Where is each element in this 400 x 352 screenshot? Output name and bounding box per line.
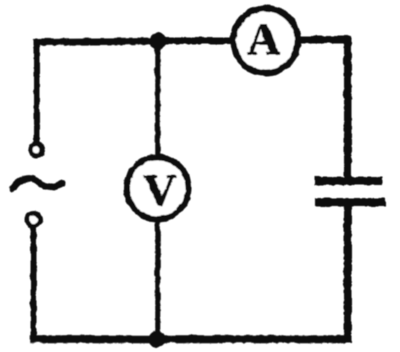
svg-text:V: V <box>142 164 175 215</box>
wire right vertical lower <box>343 203 351 339</box>
wire middle vertical lower <box>154 218 160 338</box>
svg-text:A: A <box>246 13 279 64</box>
node bottom junction <box>148 330 165 347</box>
ammeter A circle <box>233 8 298 73</box>
node top junction <box>149 32 166 49</box>
wire ammeter-to-corner <box>297 36 347 43</box>
wire middle vertical upper <box>154 40 160 158</box>
wire right vertical upper <box>343 39 351 178</box>
terminal top ring <box>30 143 42 155</box>
wire left vertical upper <box>33 42 39 142</box>
voltmeter V circle <box>126 157 188 219</box>
wire left vertical lower <box>30 228 36 339</box>
capacitor C top plate <box>314 176 382 185</box>
wire junction-to-ammeter <box>157 37 233 44</box>
terminal bottom ring <box>26 212 39 225</box>
wire bottom horizontal <box>33 335 347 343</box>
AC source tilde <box>12 178 62 188</box>
wire top-left horizontal <box>36 41 157 42</box>
capacitor C bottom plate <box>314 198 385 207</box>
